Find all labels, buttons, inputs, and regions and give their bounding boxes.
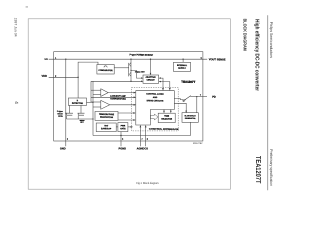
svg-text:Preliminary specification: Preliminary specification — [269, 149, 274, 186]
svg-text:PGND: PGND — [119, 147, 127, 150]
wire: comparator 2 input stubs — [91, 101, 101, 103]
tiny top-left mark — [26, 6, 28, 9]
svg-text:High efficiency DC-DC converte: High efficiency DC-DC converter — [253, 19, 260, 92]
wire: PD pin stub — [191, 96, 207, 98]
time selector box — [158, 113, 175, 122]
svg-text:BANDGAP: BANDGAP — [101, 127, 112, 130]
wire: control logic to standby switch — [174, 98, 183, 99]
dashed control section box — [132, 87, 179, 130]
svg-text:DETECTOR: DETECTOR — [72, 102, 84, 105]
wire: detector output joins riser B — [87, 101, 94, 103]
wire: sense FET sources join — [66, 116, 68, 119]
svg-text:COMPARATORS: COMPARATORS — [110, 97, 126, 100]
svg-text:DRIVE CIRCUITS: DRIVE CIRCUITS — [147, 99, 164, 102]
svg-text:FETs: FETs — [58, 115, 63, 118]
svg-text:CONTROL LOGIC: CONTROL LOGIC — [146, 92, 164, 95]
svg-text:CONTROL INTERFACE: CONTROL INTERFACE — [149, 128, 179, 131]
wire: CS pin riser — [145, 125, 147, 146]
svg-text:TEMPERATURE: TEMPERATURE — [99, 113, 115, 116]
bandgap reference box — [96, 123, 116, 132]
wire: feedback riser B — [92, 81, 94, 135]
svg-text:ADAPTIVE: ADAPTIVE — [145, 76, 156, 79]
wire: comparator 2 output to control logic — [110, 104, 136, 106]
svg-text:GENERATOR: GENERATOR — [185, 117, 196, 120]
svg-text:7: 7 — [141, 138, 142, 141]
svg-text:BLOCK DIAGRAM: BLOCK DIAGRAM — [242, 19, 247, 51]
wire: bandgap to start gate — [116, 126, 118, 128]
wire: detector drops to sense FETs — [69, 105, 71, 113]
wire: MOSFET stack drain-source path — [130, 59, 132, 81]
wire: AGND pin riser — [139, 125, 141, 146]
svg-text:1: 1 — [55, 57, 56, 60]
N-type MOSFET symbol — [129, 72, 131, 76]
wire: reference input to control logic — [91, 96, 135, 98]
wire: control logic to slow start — [174, 103, 186, 112]
svg-text:LOW-BATT AMP: LOW-BATT AMP — [110, 95, 126, 98]
wire: switch node tap to adaptive input — [131, 70, 143, 78]
wire: start gate to PGND node — [120, 132, 122, 136]
svg-text:AND: AND — [153, 96, 158, 99]
svg-text:2: 2 — [55, 75, 56, 78]
start gate box — [118, 123, 128, 132]
comparator 2 triangle — [101, 100, 110, 109]
comparator 1 (error amp) triangle — [101, 89, 108, 97]
svg-text:TEA1207T: TEA1207T — [181, 80, 195, 84]
svg-text:Fig.1 Block diagram.: Fig.1 Block diagram. — [136, 181, 159, 185]
svg-text:n-type FET: n-type FET — [135, 70, 146, 73]
wire: temperature protection outputs — [118, 112, 135, 114]
svg-text:7: 7 — [200, 94, 201, 97]
svg-text:VOUT SENSE: VOUT SENSE — [209, 58, 226, 61]
svg-text:PWR: PWR — [121, 124, 126, 127]
adaptive circuit box — [143, 75, 159, 83]
svg-text:5: 5 — [201, 57, 202, 60]
wire: slow start loop to PGND node — [93, 122, 190, 135]
svg-text:Vref: Vref — [104, 124, 108, 127]
svg-text:AGND: AGND — [137, 147, 145, 150]
svg-text:8: 8 — [147, 138, 148, 141]
svg-text:PD: PD — [212, 96, 216, 99]
temperature protection box — [95, 112, 118, 121]
sense FET 2 — [78, 113, 85, 115]
svg-text:TEA1207T: TEA1207T — [254, 156, 261, 184]
wire: rail drop to adaptive circuit — [150, 59, 152, 75]
wire: start gate output — [128, 126, 133, 128]
wire: comparator 1 output to control logic — [108, 92, 135, 94]
svg-text:COMPARATOR: COMPARATOR — [98, 69, 113, 72]
wire: control bottom to time selector — [163, 110, 165, 113]
svg-text:Philips Semiconductors: Philips Semiconductors — [269, 22, 274, 58]
current detector box — [68, 98, 86, 105]
svg-text:1997 Jun 04: 1997 Jun 04 — [13, 18, 17, 37]
wire: GND bus vertical — [65, 59, 67, 146]
svg-text:6: 6 — [122, 138, 123, 141]
svg-text:MGU782: MGU782 — [193, 142, 203, 145]
arrowheads into control logic — [134, 92, 136, 94]
svg-text:CIRCUIT: CIRCUIT — [146, 79, 155, 82]
oscillation comparator box — [97, 65, 114, 75]
junction node dots — [65, 59, 66, 60]
wire: VDD pin stub — [49, 76, 78, 78]
slow start generator box — [182, 113, 198, 123]
svg-text:INTERNAL: INTERNAL — [177, 64, 188, 67]
svg-text:SELECTOR: SELECTOR — [161, 118, 172, 121]
figure frame — [28, 19, 230, 189]
wire: comparator 1 input stubs — [91, 89, 101, 91]
svg-text:PROTECTION: PROTECTION — [100, 116, 114, 119]
oscillator arc icon — [104, 66, 107, 68]
wire: feedback riser A — [90, 81, 92, 102]
svg-text:TIME: TIME — [164, 115, 169, 118]
wire: PGND pin stub — [120, 136, 122, 147]
control logic box (L-shaped) — [136, 91, 175, 125]
wire: internal supply tap — [182, 59, 184, 62]
svg-text:4: 4 — [14, 101, 19, 104]
block arrow timer to time selector — [150, 114, 158, 120]
sense FET 1 — [66, 113, 73, 115]
svg-text:GATE: GATE — [120, 127, 126, 130]
wire: top rail L1 to VOUT SENSE pin — [49, 58, 208, 60]
wire: adaptive right inputs from drive lines — [159, 78, 163, 90]
header rule (rotated page) — [267, 15, 269, 190]
svg-text:VDD: VDD — [42, 75, 48, 78]
wire: PD net down into slow start top — [196, 97, 198, 113]
wire: VDD riser to comparator supply — [78, 62, 98, 98]
IC outline box TEA1207T — [54, 52, 203, 141]
wire: comparator output to MOSFET gates — [114, 67, 129, 69]
P-type MOSFET symbol — [129, 63, 131, 67]
MOSFET gate bar — [128, 67, 130, 73]
wire: feedback net horizontal — [91, 80, 143, 82]
svg-text:GND: GND — [60, 147, 66, 150]
internal supply box — [174, 62, 191, 71]
svg-text:SUPPLY: SUPPLY — [178, 67, 187, 70]
standby switch symbol — [183, 96, 191, 102]
svg-text:3: 3 — [67, 138, 68, 141]
svg-text:P-type POWER MOSFET: P-type POWER MOSFET — [130, 53, 154, 56]
svg-text:CS: CS — [144, 147, 148, 150]
